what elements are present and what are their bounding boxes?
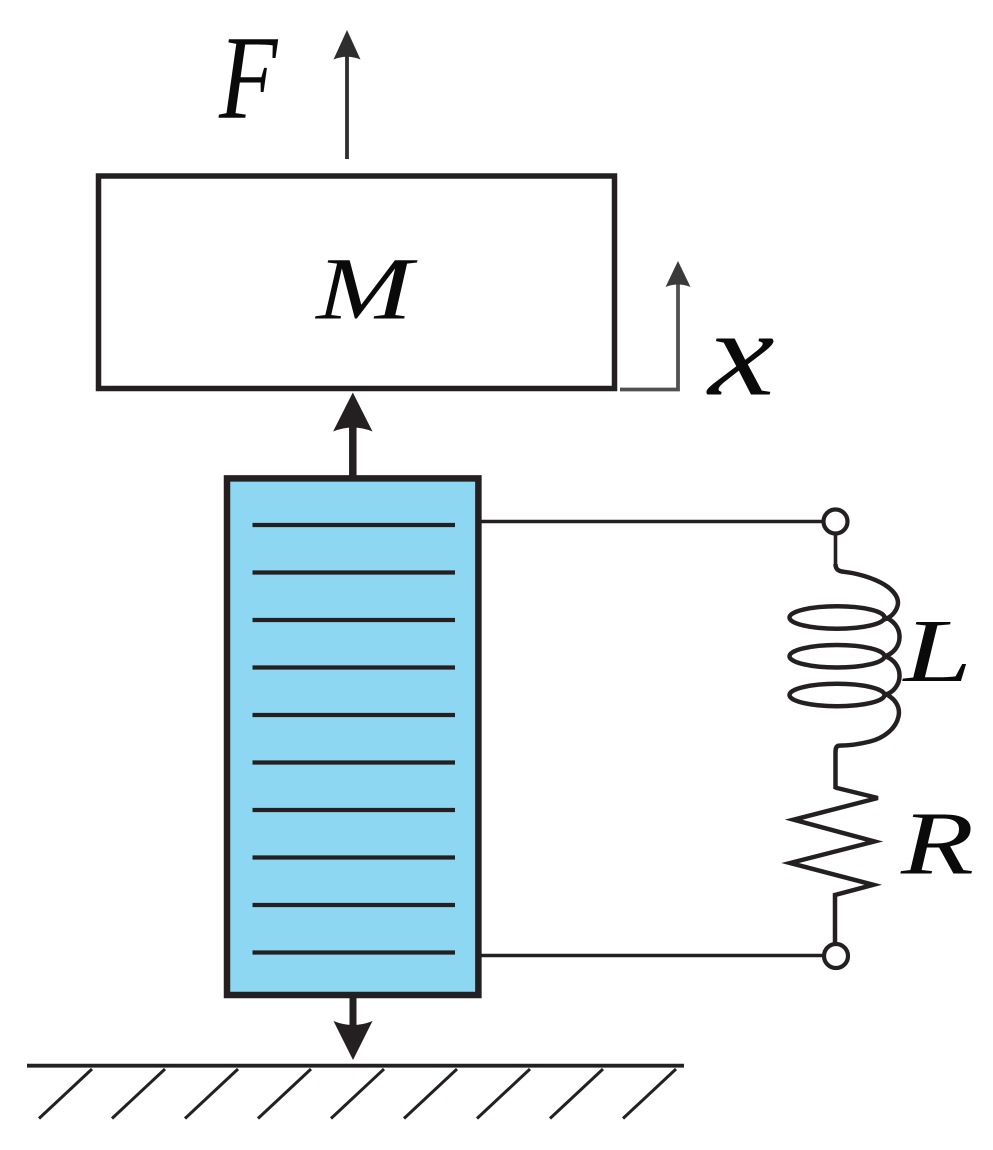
svg-text:L: L: [901, 602, 972, 702]
svg-text:R: R: [900, 793, 974, 893]
svg-text:F: F: [218, 13, 278, 144]
svg-text:M: M: [314, 240, 418, 339]
svg-text:x: x: [706, 285, 775, 421]
